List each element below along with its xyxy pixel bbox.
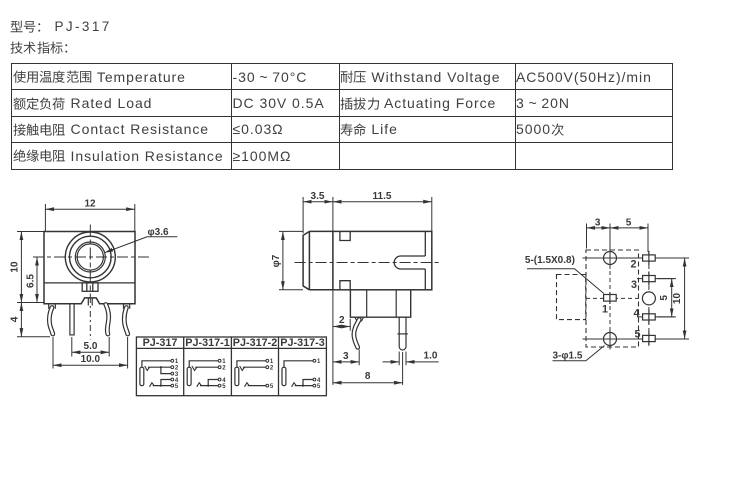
svg-text:4: 4	[175, 378, 179, 384]
wire sleeve to terminal 1	[142, 361, 171, 368]
front view center lines	[33, 225, 149, 340]
svg-text:8: 8	[365, 371, 371, 382]
pcb pad 5	[643, 331, 656, 345]
dimension 1.0	[383, 350, 439, 365]
svg-text:5: 5	[270, 384, 274, 390]
terminal 4	[171, 378, 174, 381]
dimension 12 (top width)	[45, 199, 134, 232]
terminal 2	[218, 366, 221, 369]
svg-text:5: 5	[317, 384, 321, 390]
dimension 5.0	[72, 337, 109, 357]
wire branch terminal 5 to 4	[160, 385, 162, 387]
schematic variants table	[136, 337, 326, 396]
pcb layout dashed outline	[557, 250, 639, 347]
svg-text:1: 1	[317, 359, 321, 365]
ring contact wire to terminal 5	[200, 385, 218, 387]
pcb pad 3	[643, 272, 656, 286]
schematic cell: sleeve contact	[235, 367, 239, 385]
svg-text:11.5: 11.5	[373, 191, 392, 202]
label phi 3.6 with leader	[105, 227, 178, 253]
svg-text:10: 10	[10, 261, 21, 273]
pcb row lines	[583, 224, 690, 350]
schematic cell: sleeve contact	[140, 367, 144, 385]
label 5-(1.5X0.8) with leader	[525, 255, 604, 294]
schematic cell: sleeve contact	[282, 367, 286, 385]
wire branch terminal 5 to 4	[207, 385, 209, 387]
wire sleeve to terminal 1	[237, 361, 266, 368]
svg-text:5: 5	[175, 384, 179, 390]
svg-text:3: 3	[595, 217, 601, 228]
svg-text:1: 1	[222, 359, 226, 365]
side view bottom block	[350, 290, 410, 317]
svg-text:PJ-317: PJ-317	[143, 337, 178, 349]
pcb pad 2	[643, 251, 656, 265]
svg-text:6.5: 6.5	[26, 274, 37, 288]
terminal 5	[171, 384, 174, 387]
front view pin 2 (straight)	[70, 304, 74, 335]
svg-text:5-(1.5X0.8): 5-(1.5X0.8)	[525, 255, 575, 266]
dimension phi 7 (left)	[271, 231, 303, 289]
svg-text:10: 10	[672, 293, 683, 305]
svg-text:3-φ1.5: 3-φ1.5	[553, 350, 583, 361]
svg-text:φ7: φ7	[271, 254, 282, 267]
wire sleeve to terminal 1	[284, 361, 313, 368]
svg-text:12: 12	[84, 199, 96, 210]
dimension 2	[333, 315, 350, 331]
dimension 10 (left height)	[10, 232, 45, 303]
front view switch box	[82, 283, 98, 291]
svg-text:2: 2	[339, 315, 345, 326]
dimension 8	[333, 352, 403, 385]
svg-text:2: 2	[222, 366, 226, 372]
wire branch terminal 5 to 4	[302, 385, 304, 387]
svg-text:1: 1	[602, 304, 608, 316]
svg-text:PJ-317-3: PJ-317-3	[280, 337, 324, 349]
terminal 1	[171, 359, 174, 362]
front view pin 5 (curved leg)	[124, 304, 130, 334]
terminal 5	[218, 384, 221, 387]
wire sleeve to terminal 1	[189, 361, 218, 368]
terminal 3	[171, 372, 174, 375]
pad numbers	[602, 259, 641, 341]
svg-text:3.5: 3.5	[311, 191, 325, 202]
label 3-phi1.5 with leader	[553, 346, 605, 362]
svg-text:PJ-317-2: PJ-317-2	[233, 337, 277, 349]
svg-text:1.0: 1.0	[424, 350, 438, 361]
svg-text:4: 4	[633, 308, 639, 320]
terminal 1	[313, 359, 316, 362]
svg-text:3: 3	[343, 351, 349, 362]
terminal 1	[266, 359, 269, 362]
svg-text:φ3.6: φ3.6	[148, 227, 169, 238]
dimension 5 (pcb right)	[657, 279, 676, 317]
svg-text:3: 3	[631, 279, 637, 291]
pcb pad 4	[643, 310, 656, 324]
dimension 4	[10, 303, 51, 337]
front view barrel circles	[65, 232, 115, 282]
svg-text:1: 1	[175, 359, 179, 365]
tip contact wire to terminal 2	[243, 366, 266, 368]
dimension 10 (pcb right)	[672, 258, 684, 339]
side view barrel	[303, 231, 309, 289]
terminal 4	[313, 378, 316, 381]
terminal 5	[266, 384, 269, 387]
dimension 3 / 5 (pcb top)	[587, 217, 649, 252]
svg-text:4: 4	[10, 316, 21, 322]
ring contact wire to terminal 5	[295, 385, 313, 387]
terminal 4	[218, 378, 221, 381]
pcb pad 1 (slot 1.5x0.8)	[604, 292, 617, 304]
pcb hole middle (phi 1.5)	[642, 292, 655, 305]
svg-text:PJ-317-1: PJ-317-1	[185, 337, 229, 349]
side view center pin (straight, round tip)	[397, 317, 407, 350]
svg-text:5: 5	[222, 384, 226, 390]
svg-text:1: 1	[270, 359, 274, 365]
wire branch terminal 2 to 3	[160, 366, 162, 368]
tip contact wire to terminal 2	[195, 366, 218, 368]
svg-text:5: 5	[634, 329, 640, 341]
terminal 1	[218, 359, 221, 362]
svg-text:2: 2	[630, 259, 636, 271]
svg-text:4: 4	[222, 378, 226, 384]
front view pin 1 (curved leg)	[49, 304, 56, 334]
svg-text:5: 5	[626, 217, 632, 228]
svg-text:10.0: 10.0	[81, 354, 101, 365]
schematic cell: sleeve contact	[187, 367, 191, 385]
dimension 3	[333, 350, 359, 366]
ring contact wire to terminal 5	[248, 385, 266, 387]
terminal 2	[266, 366, 269, 369]
front view center pin stub	[88, 298, 92, 306]
ring contact wire to terminal 5	[153, 385, 171, 387]
pcb hole bottom (phi 1.5)	[604, 333, 617, 346]
svg-text:4: 4	[317, 378, 321, 384]
pcb hole top (phi 1.5)	[604, 252, 617, 265]
front view jack body	[44, 232, 135, 304]
terminal 5	[313, 384, 316, 387]
dimension 10.0	[53, 337, 128, 369]
svg-text:5: 5	[659, 295, 670, 301]
dimension 6.5	[26, 257, 38, 303]
dimension 3.5 / 11.5 (top)	[303, 191, 432, 385]
svg-text:2: 2	[270, 366, 274, 372]
side view front pin (curved)	[354, 317, 364, 347]
tip contact wire to terminal 2	[148, 366, 171, 368]
terminal 2	[171, 366, 174, 369]
side view center line	[295, 262, 441, 264]
front view pin 4 (curved leg)	[106, 305, 109, 335]
side view main body	[309, 231, 431, 289]
svg-text:2: 2	[175, 366, 179, 372]
svg-text:5.0: 5.0	[84, 341, 98, 352]
